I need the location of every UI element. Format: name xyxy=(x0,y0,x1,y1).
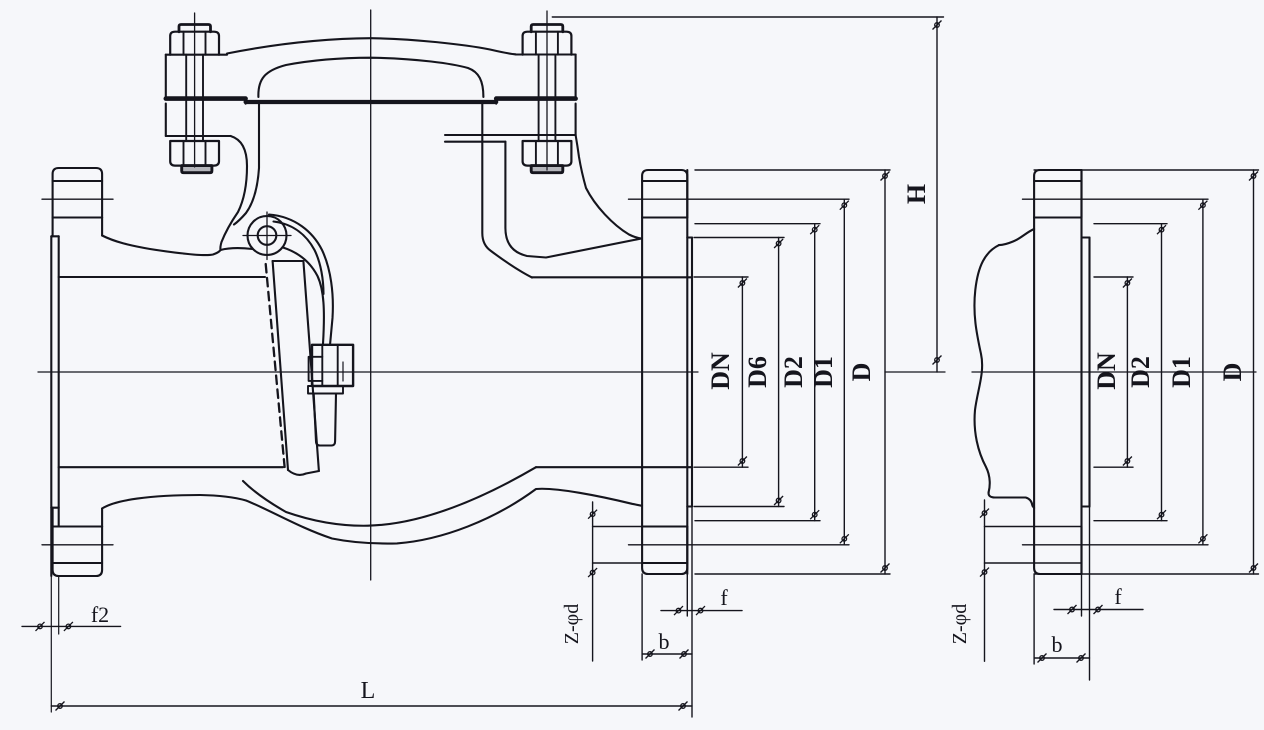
DN right terminators xyxy=(1123,279,1132,288)
bolt right top nut xyxy=(523,32,572,55)
f middle terminators xyxy=(674,606,683,615)
left flange plate edges xyxy=(52,218,54,237)
dim Z-phi-d line (middle view) xyxy=(592,502,594,661)
dim D1 line (right) xyxy=(1202,199,1204,545)
inlet bore top line xyxy=(59,276,265,278)
body outer bottom sweep xyxy=(102,489,642,544)
svg-text:f: f xyxy=(720,585,728,610)
bonnet dome inner arc xyxy=(258,58,483,97)
D middle terminators xyxy=(881,172,890,181)
H terminators xyxy=(933,21,942,30)
bolt right bottom cap xyxy=(531,166,563,173)
right view D2 extension lines xyxy=(1094,224,1167,521)
dim D2 line (middle) xyxy=(814,224,816,521)
right view D extension lines xyxy=(1034,170,1258,574)
hinge crosshair xyxy=(243,212,291,260)
left flange top lobe xyxy=(53,168,103,218)
disc plate left edge xyxy=(273,261,288,470)
svg-text:f: f xyxy=(1114,584,1122,609)
f2 terminators xyxy=(36,622,45,631)
svg-text:b: b xyxy=(1052,632,1063,657)
b middle terminators xyxy=(646,650,655,659)
middle view D1 / bolt circle lines xyxy=(629,199,850,545)
right neck outer wall xyxy=(505,142,641,258)
dim DN line (middle) xyxy=(741,277,743,467)
bolt left lower nut xyxy=(170,141,219,166)
dim D1 line (middle) xyxy=(843,199,845,545)
dim D line (right) xyxy=(1253,170,1255,574)
middle view D2 extension lines xyxy=(695,224,820,521)
disc plate top edge xyxy=(273,260,304,262)
svg-text:DN: DN xyxy=(1092,352,1121,390)
body flange right edge xyxy=(575,104,577,135)
left flange top bolt centerline xyxy=(42,198,113,200)
bolt right lower nut xyxy=(523,141,572,166)
body flange neck shoulder line (right) xyxy=(445,141,505,143)
middle view D6 extension lines xyxy=(694,238,784,507)
right view hub bottom shoulder xyxy=(989,492,1035,508)
f right terminators xyxy=(1068,605,1077,614)
middle flange bottom lobe xyxy=(642,527,687,575)
body flange bottom left xyxy=(166,135,231,137)
bonnet flange right edge xyxy=(575,55,577,98)
bolt right stud body xyxy=(539,55,556,141)
bonnet joint gasket band center recess xyxy=(246,100,497,104)
left neck inner wall xyxy=(234,104,259,225)
dim f line (middle) xyxy=(661,610,742,612)
D right terminators xyxy=(1249,172,1258,181)
bonnet stud left: centerline xyxy=(194,13,196,167)
middle flange bolt hole lines with Z-phi-d extensions xyxy=(593,527,688,564)
svg-text:D1: D1 xyxy=(1167,356,1196,388)
right neck inner wall xyxy=(482,104,532,278)
joint step connectors xyxy=(246,98,497,104)
L terminators xyxy=(56,702,65,711)
bolt left stud body xyxy=(186,55,203,141)
disc nut xyxy=(312,345,353,386)
left flange bottom lobe xyxy=(53,527,103,577)
dim f line (right) xyxy=(1054,609,1143,611)
swing arm outer edge xyxy=(269,215,333,346)
right view flange left face xyxy=(1033,218,1035,527)
right view break line (wavy) xyxy=(974,245,999,492)
bolt left top cap xyxy=(179,25,211,32)
right view D1 / bolt circle lines xyxy=(1023,199,1209,545)
dim DN line (right) xyxy=(1126,277,1128,467)
disc plate right edge xyxy=(303,261,319,471)
D6 terminators xyxy=(774,239,783,248)
right view bolt hole lines with Z-phi-d extensions xyxy=(985,527,1082,564)
outlet bore top line xyxy=(532,276,692,278)
disc washer xyxy=(309,357,323,381)
body outer top (flange hub to bonnet neck) xyxy=(102,236,252,256)
dim H line xyxy=(936,17,938,372)
disc stem xyxy=(308,386,343,394)
middle flange (outlet) top lobe xyxy=(642,170,687,218)
dim H top extension line xyxy=(552,16,943,18)
DN middle terminators xyxy=(738,279,747,288)
Z-phi-d right terminators xyxy=(980,509,989,518)
svg-text:D1: D1 xyxy=(809,356,838,388)
D2 middle terminators xyxy=(810,225,819,234)
outlet bore bottom line xyxy=(536,466,692,468)
inlet bore bottom line xyxy=(59,466,283,468)
dim b line (middle) xyxy=(642,574,692,660)
horizontal pipe centerline (section view to H line) xyxy=(38,371,945,373)
hinge boss outer circle xyxy=(248,216,287,255)
middle flange right face xyxy=(686,170,688,574)
left flange bottom bolt centerline xyxy=(42,544,113,546)
dim b line (right) xyxy=(1034,574,1089,664)
horizontal pipe centerline (right broken view) xyxy=(972,371,1256,373)
dim L line xyxy=(51,705,692,707)
disc plate bottom edge xyxy=(288,470,319,475)
D1 right terminators xyxy=(1198,201,1207,210)
svg-text:Z-φd: Z-φd xyxy=(561,604,583,644)
svg-text:b: b xyxy=(659,629,670,654)
bonnet flange top surface xyxy=(166,54,227,56)
D2 right terminators xyxy=(1157,225,1166,234)
right view DN extension lines xyxy=(1094,277,1133,467)
middle flange left face xyxy=(641,218,643,527)
bonnet stud right: centerline xyxy=(546,11,548,170)
right view raised face xyxy=(1088,238,1090,507)
hinge pin circle xyxy=(258,226,277,245)
right view flange right face xyxy=(1080,170,1082,574)
bolt left top nut xyxy=(170,32,219,55)
bonnet flange left edge xyxy=(165,55,167,97)
svg-text:D6: D6 xyxy=(743,356,772,388)
bolt left bottom cap xyxy=(182,166,212,173)
disc nut axis tick xyxy=(342,362,344,381)
middle view DN extension lines xyxy=(694,277,748,467)
left flange face line xyxy=(58,236,60,526)
right flange hub sweep xyxy=(576,135,642,239)
right broken view: flange top lobe xyxy=(1034,170,1081,218)
svg-text:Z-φd: Z-φd xyxy=(949,604,971,644)
bonnet dome outer arc xyxy=(227,38,516,54)
bonnet joint gasket band outer segments xyxy=(166,96,576,101)
raised face connectors xyxy=(51,235,58,237)
body inner bottom sweep xyxy=(243,467,536,526)
bolt right top cap xyxy=(531,25,563,32)
disc hidden edge (dashed) xyxy=(266,264,285,467)
body flange bottom right xyxy=(445,134,576,136)
dim D line (middle) xyxy=(884,170,886,574)
dim f2 line xyxy=(22,625,121,627)
right view flange bottom lobe xyxy=(1034,527,1081,575)
D1 middle terminators xyxy=(840,201,849,210)
vertical centerline of section view xyxy=(370,10,372,580)
middle flange raised face xyxy=(691,238,693,507)
dim D2 line (right) xyxy=(1161,224,1163,521)
Z-phi-d middle terminators xyxy=(588,510,597,519)
svg-text:D2: D2 xyxy=(1126,356,1155,388)
swing arm inner edge xyxy=(283,248,324,345)
svg-text:D: D xyxy=(1218,363,1247,382)
svg-text:D2: D2 xyxy=(779,356,808,388)
middle view D extension lines xyxy=(695,170,890,574)
dim Z-phi-d line (right view) xyxy=(984,500,986,661)
svg-text:DN: DN xyxy=(706,352,735,390)
body flange left edge xyxy=(165,104,167,136)
svg-text:D: D xyxy=(847,363,876,382)
dim D6 line xyxy=(778,238,780,507)
dim f extension lines (right) xyxy=(1082,507,1090,681)
dim f extension lines (middle) xyxy=(687,507,692,718)
svg-text:H: H xyxy=(902,184,931,204)
svg-text:f2: f2 xyxy=(91,602,109,627)
svg-text:L: L xyxy=(361,678,376,704)
left neck outer S-curve xyxy=(220,136,247,250)
left raised face line (extends down as extension line) xyxy=(50,236,52,576)
right view hub top shoulder xyxy=(999,229,1034,245)
b right terminators xyxy=(1038,654,1047,663)
